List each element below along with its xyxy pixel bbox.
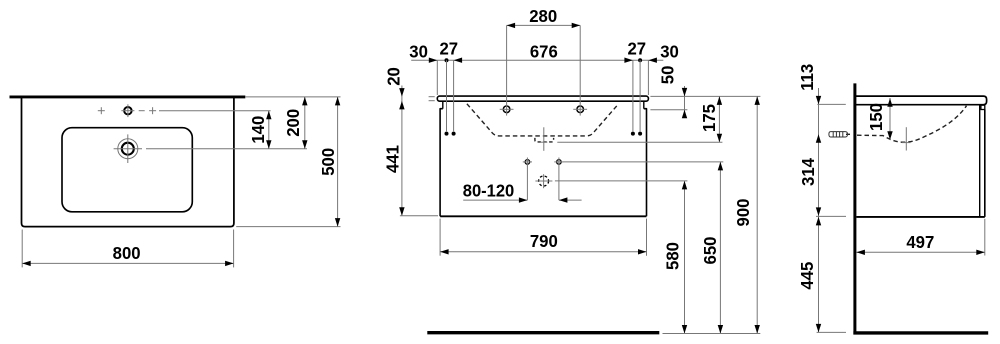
svg-text:800: 800 — [113, 242, 141, 263]
svg-text:314: 314 — [797, 158, 818, 186]
svg-text:441: 441 — [382, 145, 403, 173]
svg-text:500: 500 — [318, 148, 339, 176]
svg-text:27: 27 — [439, 38, 458, 59]
svg-text:900: 900 — [732, 199, 753, 227]
svg-text:80-120: 80-120 — [463, 180, 515, 201]
svg-text:790: 790 — [530, 230, 558, 251]
svg-text:150: 150 — [865, 103, 886, 131]
svg-text:200: 200 — [282, 109, 303, 137]
svg-text:27: 27 — [627, 38, 646, 59]
svg-text:30: 30 — [409, 41, 428, 62]
svg-text:650: 650 — [699, 237, 720, 265]
svg-text:497: 497 — [906, 232, 934, 253]
svg-text:280: 280 — [529, 5, 557, 26]
svg-text:20: 20 — [383, 67, 404, 86]
svg-text:140: 140 — [248, 116, 269, 144]
svg-text:445: 445 — [797, 261, 818, 289]
svg-text:676: 676 — [530, 41, 558, 62]
svg-text:175: 175 — [698, 104, 719, 132]
svg-text:30: 30 — [660, 41, 679, 62]
svg-text:580: 580 — [662, 242, 683, 270]
svg-text:50: 50 — [657, 66, 678, 85]
svg-text:113: 113 — [796, 63, 817, 90]
